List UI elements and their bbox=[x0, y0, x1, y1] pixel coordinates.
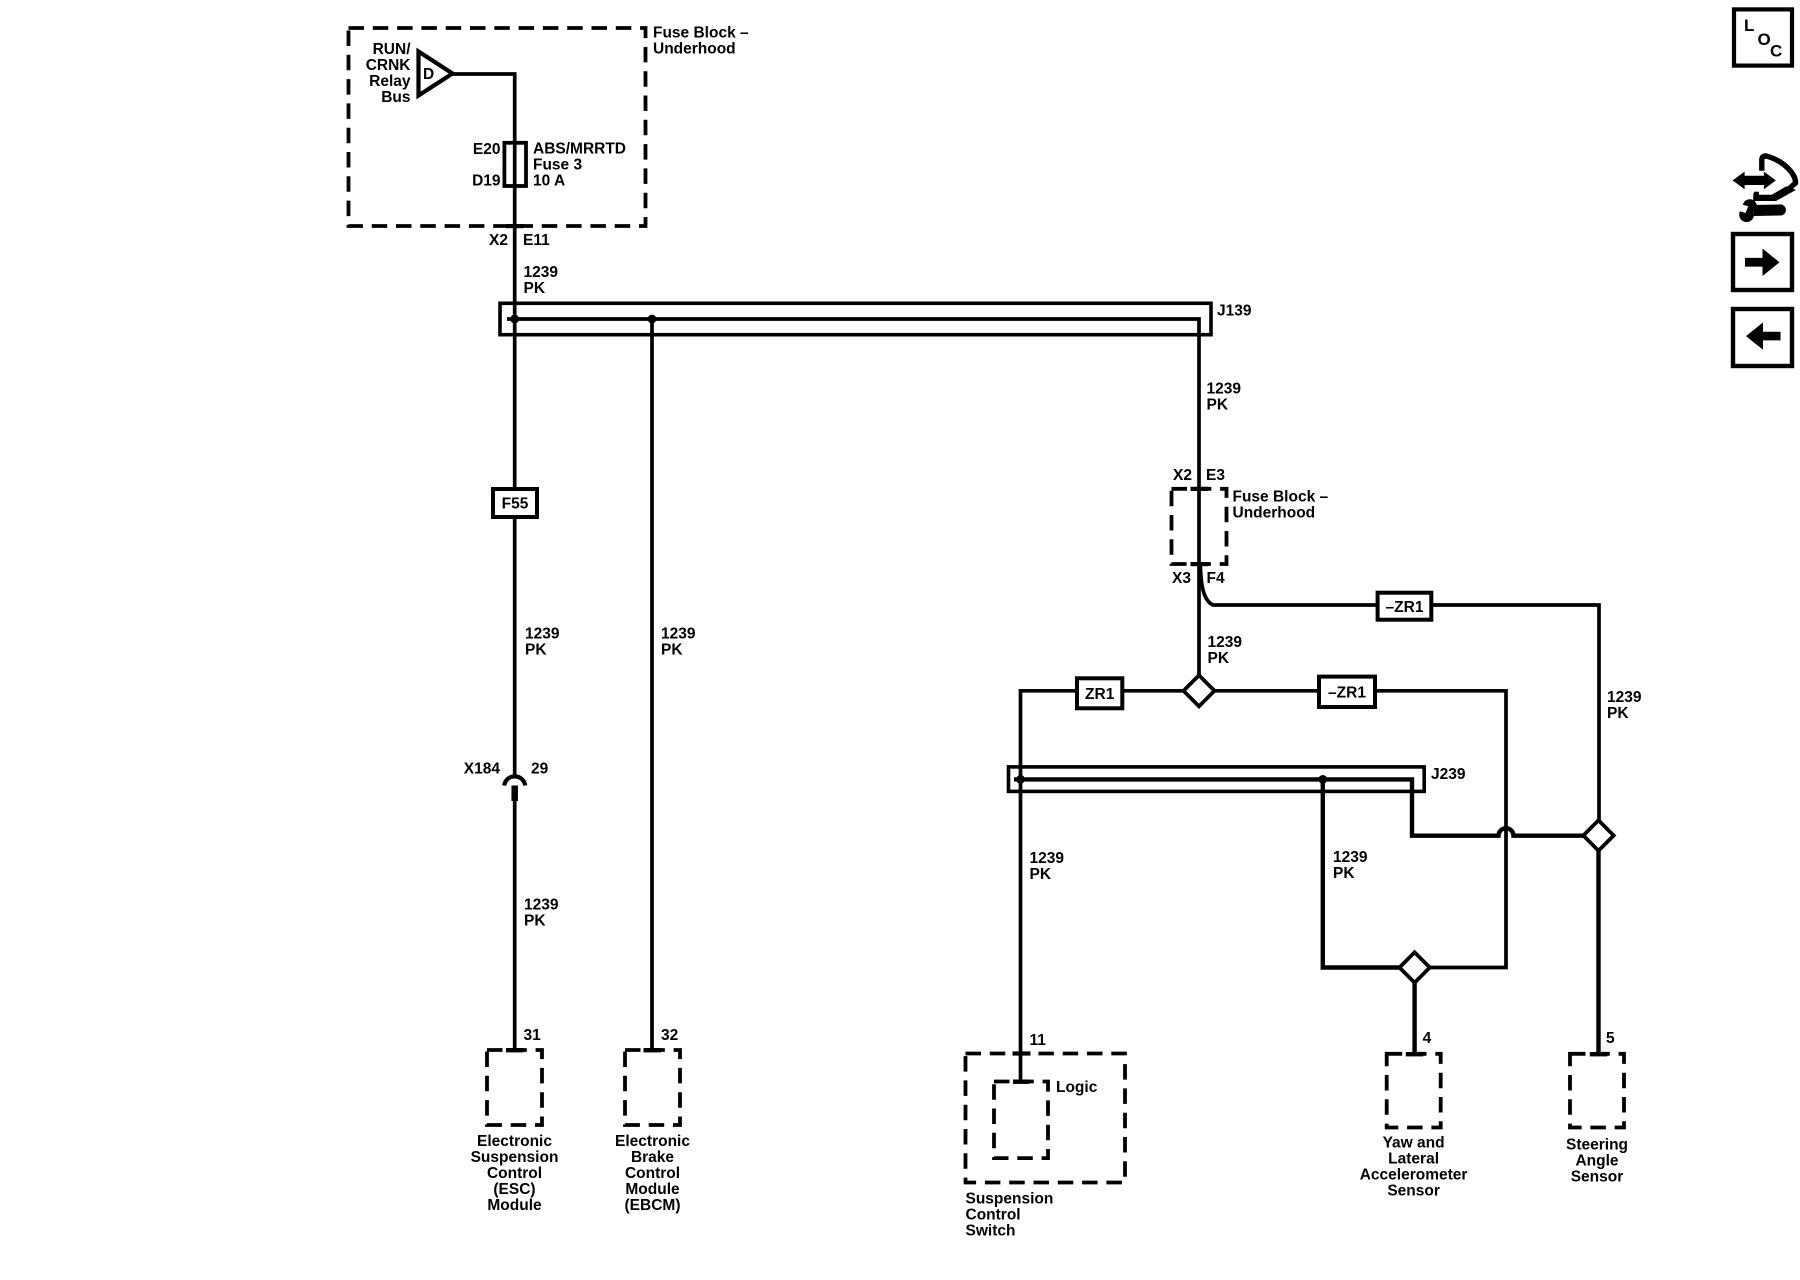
connector tick X2/E11 bbox=[506, 224, 524, 228]
wire J139 down to EBCM pin 32 bbox=[650, 318, 654, 1048]
terminal 32 tick bbox=[644, 1048, 662, 1052]
svg-text:PK: PK bbox=[1030, 866, 1052, 883]
replace-part icon double arrow bbox=[1733, 172, 1776, 190]
svg-text:Sensor: Sensor bbox=[1571, 1168, 1624, 1185]
EBCM module dashed box bbox=[625, 1050, 680, 1125]
svg-text:Yaw and: Yaw and bbox=[1383, 1135, 1445, 1152]
forward arrow bbox=[1745, 249, 1780, 276]
svg-text:X3: X3 bbox=[1172, 570, 1191, 587]
relay bus triangle with D bbox=[419, 52, 453, 96]
svg-text:Module: Module bbox=[625, 1181, 680, 1198]
svg-text:PK: PK bbox=[1208, 650, 1230, 667]
svg-text:10 A: 10 A bbox=[533, 173, 565, 190]
wire from diamond right through -ZR1 down to y968 run bbox=[1215, 691, 1507, 968]
svg-text:5: 5 bbox=[1606, 1030, 1615, 1047]
svg-text:X2: X2 bbox=[489, 232, 508, 249]
svg-text:PK: PK bbox=[1607, 705, 1629, 722]
svg-text:Brake: Brake bbox=[631, 1149, 674, 1166]
svg-text:1239: 1239 bbox=[1030, 850, 1065, 867]
replace-part icon wrench bbox=[1729, 199, 1786, 222]
svg-text:ABS/MRRTD: ABS/MRRTD bbox=[533, 141, 626, 158]
svg-text:1239: 1239 bbox=[1607, 689, 1642, 706]
svg-text:1239: 1239 bbox=[525, 626, 560, 643]
svg-text:11: 11 bbox=[1030, 1032, 1047, 1049]
wire X184 down to ESC pin 31 bbox=[513, 800, 517, 1048]
replace-part icon wrist bar bbox=[1753, 186, 1796, 201]
svg-text:Underhood: Underhood bbox=[653, 41, 736, 58]
svg-text:X2: X2 bbox=[1173, 467, 1192, 484]
svg-text:Switch: Switch bbox=[966, 1223, 1016, 1240]
svg-text:Control: Control bbox=[966, 1207, 1021, 1224]
svg-text:O: O bbox=[1758, 30, 1771, 49]
connector tick X2/E3 bbox=[1191, 487, 1209, 491]
svg-text:Fuse Block –: Fuse Block – bbox=[653, 25, 749, 42]
svg-text:D19: D19 bbox=[472, 173, 501, 190]
fuse block underhood dashed box (right) bbox=[1172, 489, 1227, 564]
svg-text:E11: E11 bbox=[523, 232, 550, 249]
svg-text:PK: PK bbox=[661, 642, 683, 659]
wire from diamond left to ZR1 and down to switch pin 11 bbox=[1021, 691, 1185, 1082]
yaw sensor dashed box bbox=[1387, 1054, 1441, 1128]
svg-text:Module: Module bbox=[487, 1197, 542, 1214]
svg-text:Fuse Block –: Fuse Block – bbox=[1233, 489, 1329, 506]
svg-text:Logic: Logic bbox=[1056, 1079, 1098, 1096]
logic inner dashed box bbox=[994, 1082, 1048, 1159]
wire branch curving from F4 to steering-angle-sensor run bbox=[1200, 566, 1599, 821]
svg-text:1239: 1239 bbox=[1207, 381, 1242, 398]
steering angle sensor dashed box bbox=[1570, 1054, 1624, 1128]
svg-text:Accelerometer: Accelerometer bbox=[1360, 1167, 1468, 1184]
splice label ZR1 box bbox=[1077, 678, 1122, 708]
svg-text:F55: F55 bbox=[502, 496, 529, 513]
splice diamond at 1414,967 bbox=[1399, 952, 1429, 982]
svg-text:E3: E3 bbox=[1206, 467, 1225, 484]
svg-text:1239: 1239 bbox=[524, 264, 559, 281]
svg-text:Control: Control bbox=[487, 1165, 542, 1182]
svg-text:(EBCM): (EBCM) bbox=[625, 1197, 681, 1214]
in-line connector X184 arc bbox=[504, 776, 525, 785]
wire diamond2 down to steering sensor pin 5 bbox=[1596, 851, 1600, 1053]
svg-text:Angle: Angle bbox=[1575, 1152, 1618, 1169]
svg-text:Steering: Steering bbox=[1566, 1136, 1628, 1153]
F55 connector box bbox=[493, 489, 537, 517]
svg-text:F4: F4 bbox=[1207, 570, 1225, 587]
svg-text:–ZR1: –ZR1 bbox=[1328, 684, 1366, 701]
terminal 5 tick bbox=[1590, 1052, 1608, 1056]
terminal 31 tick bbox=[506, 1048, 524, 1052]
wire from J239 dot down and right to yaw diamond bbox=[1323, 778, 1400, 968]
svg-text:Lateral: Lateral bbox=[1388, 1151, 1439, 1168]
fuse block underhood dashed box bbox=[349, 28, 646, 226]
forward arrow box bbox=[1733, 234, 1792, 290]
svg-text:Bus: Bus bbox=[381, 89, 410, 106]
svg-text:31: 31 bbox=[524, 1027, 542, 1044]
svg-text:1239: 1239 bbox=[1208, 634, 1243, 651]
svg-text:4: 4 bbox=[1423, 1030, 1432, 1047]
splice diamond at 1199,691 bbox=[1184, 675, 1215, 706]
svg-text:L: L bbox=[1744, 16, 1754, 35]
svg-text:–ZR1: –ZR1 bbox=[1386, 599, 1424, 616]
svg-text:Relay: Relay bbox=[369, 73, 411, 90]
J239 internal bus line turning down and right to diamond bbox=[1014, 779, 1584, 835]
ESC module dashed box bbox=[487, 1050, 542, 1125]
svg-text:PK: PK bbox=[1333, 865, 1355, 882]
svg-text:Sensor: Sensor bbox=[1387, 1183, 1440, 1200]
connector tick X3/F4 bbox=[1191, 562, 1209, 566]
back arrow box bbox=[1733, 309, 1792, 366]
svg-text:Suspension: Suspension bbox=[966, 1191, 1054, 1208]
wire J139 down to ESC module bbox=[513, 318, 517, 775]
wire diamond3 down to yaw sensor pin 4 bbox=[1412, 983, 1416, 1052]
svg-text:J239: J239 bbox=[1431, 766, 1466, 783]
svg-text:PK: PK bbox=[525, 642, 547, 659]
suspension control switch outer dashed box bbox=[966, 1054, 1126, 1183]
svg-text:PK: PK bbox=[524, 280, 546, 297]
svg-text:1239: 1239 bbox=[524, 897, 559, 914]
connector tick switch crossing bbox=[1013, 1051, 1031, 1055]
fuse ABS/MRRTD Fuse 3 10A bbox=[504, 143, 526, 186]
replace-part icon hand outline bbox=[1762, 156, 1796, 191]
splice pack J239 busbar bbox=[1009, 767, 1425, 792]
splice diamond at 1598,835 bbox=[1583, 820, 1613, 850]
svg-text:Control: Control bbox=[625, 1165, 680, 1182]
splice pack J139 busbar bbox=[500, 303, 1211, 334]
junction dot at 1322 bbox=[1318, 775, 1327, 784]
terminal tick at Logic box bbox=[1013, 1080, 1030, 1084]
svg-text:29: 29 bbox=[531, 761, 549, 778]
wire from RUN/CRNK relay bus through fuse down to J139 bbox=[452, 74, 515, 320]
svg-text:1239: 1239 bbox=[1333, 849, 1368, 866]
J139 internal bus line turning down to right wire bbox=[507, 319, 1199, 676]
svg-text:X184: X184 bbox=[464, 761, 501, 778]
LOC reference box bbox=[1734, 9, 1792, 65]
svg-text:D: D bbox=[423, 66, 434, 83]
svg-text:32: 32 bbox=[661, 1027, 678, 1044]
X184 male pin bbox=[511, 786, 518, 802]
junction dot at 1020 bbox=[1016, 775, 1025, 784]
splice label -ZR1 box (top) bbox=[1378, 593, 1432, 620]
svg-text:Fuse 3: Fuse 3 bbox=[533, 157, 582, 174]
svg-text:1239: 1239 bbox=[661, 626, 696, 643]
svg-text:Electronic: Electronic bbox=[477, 1133, 552, 1150]
svg-text:C: C bbox=[1770, 42, 1782, 61]
svg-text:Suspension: Suspension bbox=[471, 1149, 559, 1166]
svg-text:CRNK: CRNK bbox=[366, 57, 412, 74]
junction dot at 652 bbox=[648, 315, 657, 324]
svg-text:E20: E20 bbox=[473, 141, 501, 158]
svg-text:RUN/: RUN/ bbox=[373, 41, 412, 58]
svg-text:ZR1: ZR1 bbox=[1085, 686, 1115, 703]
svg-text:Electronic: Electronic bbox=[615, 1133, 690, 1150]
junction dot at 514 bbox=[510, 315, 519, 324]
terminal 4 tick bbox=[1406, 1052, 1424, 1056]
svg-text:(ESC): (ESC) bbox=[493, 1181, 535, 1198]
splice label -ZR1 box (middle) bbox=[1319, 677, 1375, 707]
svg-text:PK: PK bbox=[524, 913, 546, 930]
back arrow bbox=[1746, 322, 1781, 349]
svg-text:Underhood: Underhood bbox=[1233, 505, 1316, 522]
svg-text:PK: PK bbox=[1207, 397, 1229, 414]
svg-text:J139: J139 bbox=[1217, 303, 1252, 320]
